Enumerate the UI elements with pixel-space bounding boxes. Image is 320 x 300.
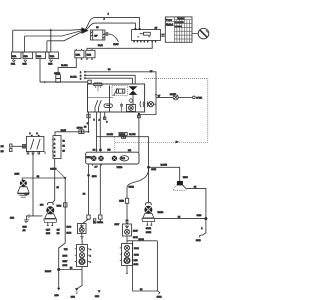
svg-text:3293: 3293 [151,169,156,171]
svg-text:x x x x x: x x x x x [175,26,182,28]
indicator lamp box right top [123,224,132,236]
svg-text:b: b [90,255,92,257]
svg-text:1005: 1005 [63,255,68,257]
svg-text:31/9: 31/9 [95,296,100,298]
svg-text:31/4: 31/4 [48,63,53,65]
module left stub pins [84,71,86,79]
svg-text:BL/R: BL/R [98,45,103,47]
wire from fuse F3 down to main feed [39,59,41,82]
dotted linkage line lower [115,141,208,143]
svg-text:31/8: 31/8 [46,233,51,235]
left stub connectors with labels [1,144,12,153]
washer pump pins [146,222,152,234]
relay box K wiper relay [132,30,161,41]
svg-text:BL/GN: BL/GN [107,134,114,136]
dotted linkage line upper [144,77,208,79]
svg-text:1234: 1234 [121,158,125,160]
module internal contact pin [120,103,122,112]
cluster right pin ticks [88,249,92,264]
wire box B to pump 2 [52,159,54,203]
svg-text:4: 4 [54,152,56,154]
wire bus line 3 [47,31,83,40]
labels cluster left column [63,249,68,267]
svg-text:31/7: 31/7 [46,229,51,231]
svg-text:31/72: 31/72 [146,232,152,234]
svg-text:2456: 2456 [196,240,201,242]
svg-text:2: 2 [80,75,82,77]
dotted linkage drop to motors [115,137,137,152]
svg-text:4/3: 4/3 [23,230,27,232]
svg-text:1 2 3 4 5 6: 1 2 3 4 5 6 [175,22,184,24]
motor symbol M3 [112,156,117,161]
svg-text:BL/GN: BL/GN [129,134,136,136]
wire switch to left ground [32,154,34,216]
svg-text:WRY: WRY [63,261,68,263]
svg-text:4 7: 4 7 [95,167,99,169]
fuse F1 [12,52,22,59]
node open terminal [193,96,196,99]
svg-text:21: 21 [63,141,66,143]
tick on ground wire [28,214,30,217]
svg-text:14/8: 14/8 [134,260,139,262]
svg-text:21: 21 [99,150,102,152]
svg-text:31/3: 31/3 [23,226,28,228]
wire motor to lamp column 1 [88,164,90,215]
wire pump2 bottom to ground [26,216,42,220]
svg-text:5/8: 5/8 [108,149,112,151]
svg-text:a: a [90,249,92,251]
wire module to motor pin 1 [96,112,98,152]
motor symbol M2 [98,156,103,161]
lamp row right of module [140,101,156,107]
module internal switch contacts [95,100,102,112]
connector on lamp column 2 [99,215,102,223]
svg-text:Terminal: Terminal [177,17,185,20]
svg-text:23: 23 [63,151,66,153]
svg-text:100: 100 [40,205,44,207]
svg-text:7.5A: 7.5A [50,55,55,58]
connector on ground column [64,203,67,207]
svg-text:WT50: WT50 [158,212,164,214]
svg-text:WR: WR [64,249,68,251]
svg-text:B6807: B6807 [45,271,52,273]
module internal contact oval [104,104,112,108]
wire riser to fuse F1 [12,30,14,52]
fuse F5 [75,49,84,59]
wire top inner line to relay [86,23,136,30]
svg-text:2Y/W: 2Y/W [113,44,118,46]
node module bottom junction [138,113,141,118]
svg-text:2/5: 2/5 [1,146,5,148]
svg-text:S/P36: S/P36 [77,128,84,130]
svg-text:5: 5 [94,120,96,122]
module pump bowtie symbol [129,86,138,95]
svg-text:34: 34 [108,69,111,71]
node ground junction right [204,217,207,220]
wire fuse F5 to connector S/P38 [58,58,76,75]
connector arrow below F1 [11,59,16,66]
wiper motor unit box [86,152,139,164]
svg-text:15A: 15A [12,55,16,58]
wire module line b [85,75,136,84]
svg-text:WPS: WPS [183,177,188,179]
svg-text:BL/GN: BL/GN [161,165,168,167]
wiper control module box [88,84,145,112]
relay right connector stub [160,33,165,37]
wire main feed horizontal [40,81,88,83]
svg-text:3: 3 [80,78,82,80]
connector arrow below F2 [23,59,28,66]
svg-text:5: 5 [54,156,56,158]
connector S/P36 squares [79,130,84,134]
wire module to connector S/P36 and switch [55,112,90,136]
ground reference mark bottom centre [95,290,101,298]
wire 6807 junction link [59,269,82,271]
connector arrow below F4 [48,59,53,66]
svg-text:3290: 3290 [92,176,97,178]
svg-text:5E: 5E [57,233,60,235]
wire module line 34 to right drop [85,72,156,115]
connector label box on wash wire [119,132,127,138]
indicator cluster right box [122,244,133,266]
svg-text:3: 3 [54,147,56,149]
warning lamp 1910 box [78,219,89,233]
svg-text:G18W: G18W [170,94,176,96]
svg-text:30: 30 [84,127,87,129]
wire module line c [85,78,133,84]
svg-text:3280: 3280 [197,215,202,217]
ground bottom left-centre [71,288,79,299]
pump 2 pins [46,223,53,235]
label wire code mid [57,229,60,234]
switch bottom pins [27,152,45,155]
wire bus line 2 [25,30,83,36]
svg-text:31/: 31/ [57,229,60,231]
svg-text:1045: 1045 [134,254,139,256]
wire pump to right ground junction [155,218,206,220]
wire sensor to ground run [183,185,206,218]
connector on lamp column 1 [87,215,90,219]
module internal coil component [116,89,124,93]
svg-text:1917: 1917 [115,224,120,226]
node tick on main feed [44,81,46,83]
wire S/P output curve [105,33,118,42]
node junction washer feed [147,166,150,169]
wire down to indicator assembly [126,203,128,224]
svg-text:A9: A9 [155,26,158,29]
svg-text:1: 1 [80,72,82,74]
boxed label S/P3A [93,219,103,224]
module indicator lamp box [126,104,135,111]
wire cluster to ground left [77,267,82,289]
labels module stub pins [80,72,82,80]
svg-text:5913: 5913 [57,205,62,207]
svg-text:1: 1 [54,139,56,141]
svg-text:3292: 3292 [157,297,162,299]
connector on main feed at module [88,80,91,83]
svg-text:3: 3 [106,122,108,124]
cluster right bottom stub [126,266,128,274]
node feed arrow apex [81,27,88,34]
switch top pins [29,133,39,136]
wire motor to lamp column 2 stub [99,164,101,215]
module internal dashed sub box [112,85,127,95]
labels right top box [133,231,138,240]
indicator cluster left box [77,245,88,267]
connector pins above indicator [125,220,129,224]
wire wash signal horizontal [97,137,149,203]
relay top pins [134,28,140,30]
module bottom pin labels [94,120,109,124]
svg-text:1904: 1904 [67,232,72,234]
svg-text:2/6: 2/6 [1,151,5,153]
washer pump 2 assembly [44,202,57,222]
wire into switch left [12,145,26,147]
wire branch to horn 6215 [22,178,65,180]
module stub pin with connector [104,112,106,119]
motor unit top pins [93,150,103,152]
icon crossed circle [192,28,209,39]
svg-text:30: 30 [96,27,99,29]
relay bottom pins [133,41,156,43]
washer level sensor WPS [173,177,188,191]
module internal switch arm [114,88,118,95]
connector on rear washer feed [125,198,128,203]
svg-text:c: c [90,262,91,264]
svg-text:Power: Power [166,19,172,22]
faint panel outline [156,241,158,291]
svg-text:1047: 1047 [133,231,138,233]
wire junction curve to rear washer feed [127,169,149,199]
svg-text:SigGnd: SigGnd [166,24,174,26]
cluster right left pins [120,248,122,261]
svg-text:34: 34 [93,150,96,152]
svg-text:1910: 1910 [67,226,72,228]
labels cluster right column [134,248,140,266]
wire riser to fuse F2 [24,36,26,52]
wire riser to fuse F3 [46,41,48,52]
wire lamp to terminal [178,96,192,98]
wire right box to cluster [126,236,128,244]
module internal divider [88,97,114,99]
wire ground drop left [55,270,61,298]
svg-text:BL/W: BL/W [61,130,66,132]
fuse F6 [86,49,95,59]
dotted linkage line right [207,78,209,142]
svg-text:WPM: WPM [86,157,91,159]
svg-text:4: 4 [108,14,110,16]
connector pair on switch left wire [22,145,25,148]
module internal vertical wire [109,86,111,112]
link lamp to cluster [80,234,84,245]
cluster left pins [75,249,77,262]
connector column box B [52,136,61,159]
node junction on ground column [64,177,66,179]
svg-text:2/1M: 2/1M [119,201,124,203]
connector S/P38 squares [56,75,61,83]
wire top outer line to relay [86,18,140,30]
fuse F2 [23,52,33,59]
node junction 3290 [87,174,97,178]
motor symbol M1 [91,156,96,161]
motor unit oval label [120,156,129,161]
wire module to motor pin 2 [99,112,101,152]
wire relay output to fuse F6 [87,42,152,50]
svg-text:1044: 1044 [134,248,139,250]
wire fuse supply bus [13,51,51,53]
svg-text:32: 32 [83,194,86,196]
svg-text:7.5A: 7.5A [87,53,92,56]
wire ground drop right [196,219,206,243]
connector S/P ignition feed box [91,30,105,40]
wire junction to level sensor [149,167,180,181]
svg-text:G N/A: G N/A [196,97,202,100]
diamond check valve [129,98,133,103]
svg-text:31/71: 31/71 [146,228,152,230]
svg-text:2: 2 [54,143,56,145]
svg-text:S/P: S/P [94,36,98,38]
labels right of box B [63,141,66,153]
lamp G18W [173,95,178,100]
svg-text:2: 2 [201,228,203,230]
svg-text:BL/GR: BL/GR [70,76,77,78]
wire bowtie to indicator [132,95,134,106]
wire junction down to motor unit [138,115,140,153]
wire switch ground column [50,169,65,270]
label 37 at right drop [150,71,161,97]
svg-text:1005: 1005 [63,265,68,267]
fuse F3 [36,52,46,59]
svg-text:7.5A: 7.5A [37,55,42,58]
svg-text:7.5A: 7.5A [76,53,81,56]
fuse F4 [49,52,59,59]
svg-text:31/1: 31/1 [11,63,16,65]
horn 6215 symbol [18,180,30,198]
svg-text:24/0: 24/0 [55,295,60,297]
svg-text:31/32: 31/32 [129,187,135,189]
node junction tick on bus 1 [50,29,52,32]
wiper switch box A [26,136,44,151]
svg-text:4: 4 [104,19,106,21]
svg-text:WT30: WT30 [117,167,123,169]
svg-text:22: 22 [63,146,66,148]
svg-text:1048: 1048 [134,264,139,266]
wire riser to fuse F4 [50,30,52,52]
ground symbol left [23,220,30,232]
node ground junction 6807 [57,268,60,271]
svg-text:S4/GR: S4/GR [50,169,57,171]
labels lamp 1910 [67,226,72,234]
wire lamp G18W branch [156,96,173,98]
dotted linkage arrow [176,140,180,143]
svg-text:31/2: 31/2 [23,63,28,65]
svg-text:19/8: 19/8 [10,218,15,220]
washer pump assembly [142,203,155,222]
svg-text:31/6: 31/6 [71,297,76,299]
motor unit bottom pins [92,164,101,169]
svg-text:6215: 6215 [15,173,20,175]
svg-text:15A: 15A [24,55,28,58]
svg-text:12 34: 12 34 [139,239,145,241]
wire bus line 1 (battery feed 30) [13,28,83,31]
module top connector label [94,83,103,92]
arrow end bottom right [157,291,162,299]
wire branch to bottom run [127,241,157,291]
svg-text:BL/GR: BL/GR [61,65,68,67]
connector pin table [165,17,192,42]
svg-text:18: 18 [57,187,60,189]
